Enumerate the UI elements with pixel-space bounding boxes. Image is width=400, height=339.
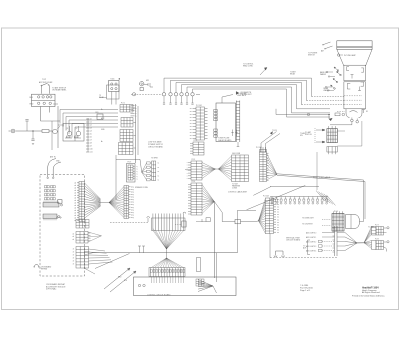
svg-text:CIRCUIT BOARD: CIRCUIT BOARD bbox=[286, 239, 301, 242]
svg-text:x0: x0 bbox=[90, 119, 92, 121]
svg-text:P/J 102: P/J 102 bbox=[196, 105, 202, 107]
svg-text:wxy: wxy bbox=[131, 199, 134, 201]
svg-text:nc: nc bbox=[158, 180, 160, 182]
svg-text:S1: S1 bbox=[366, 111, 368, 113]
svg-text:x11: x11 bbox=[90, 152, 93, 154]
svg-text:wxy: wxy bbox=[131, 217, 134, 219]
svg-text:P/J 4: P/J 4 bbox=[192, 181, 196, 183]
svg-text:ab: ab bbox=[74, 190, 76, 192]
svg-text:WAFER: WAFER bbox=[320, 73, 327, 76]
svg-text:x3: x3 bbox=[90, 128, 92, 130]
svg-text:nc: nc bbox=[158, 171, 160, 173]
svg-text:ab: ab bbox=[74, 212, 76, 214]
svg-text:CONN: CONN bbox=[232, 188, 238, 190]
svg-text:Q2: Q2 bbox=[75, 128, 77, 130]
svg-text:ab: ab bbox=[74, 187, 76, 189]
svg-text:wxy: wxy bbox=[131, 204, 134, 206]
svg-text:P/J 2: P/J 2 bbox=[194, 140, 198, 142]
svg-text:PHONE UNIT: PHONE UNIT bbox=[241, 94, 253, 96]
svg-text:ab: ab bbox=[74, 217, 76, 219]
svg-text:ON REAR PANEL: ON REAR PANEL bbox=[52, 89, 66, 92]
svg-text:P/J 7: P/J 7 bbox=[375, 224, 379, 226]
svg-text:P/J 1: P/J 1 bbox=[121, 103, 125, 105]
svg-text:nc: nc bbox=[158, 163, 160, 165]
svg-text:ab: ab bbox=[74, 185, 76, 187]
svg-text:P/J 8: P/J 8 bbox=[375, 238, 379, 240]
svg-text:Printed in the United States o: Printed in the United States of America bbox=[352, 294, 385, 297]
svg-text:wxy: wxy bbox=[131, 187, 134, 189]
svg-text:wxy: wxy bbox=[131, 197, 134, 199]
svg-text:x8: x8 bbox=[90, 143, 92, 145]
svg-text:ab: ab bbox=[74, 215, 76, 217]
svg-text:xw: xw bbox=[190, 120, 192, 122]
svg-text:P/J 5: P/J 5 bbox=[334, 211, 338, 213]
svg-text:K101: K101 bbox=[111, 79, 115, 81]
svg-text:wxy: wxy bbox=[131, 192, 134, 194]
svg-text:x2: x2 bbox=[90, 125, 92, 127]
svg-text:P/J 104: P/J 104 bbox=[256, 147, 262, 149]
svg-text:x6: x6 bbox=[90, 137, 92, 139]
svg-text:P/J 103: P/J 103 bbox=[263, 196, 269, 198]
svg-text:TO SPKR: TO SPKR bbox=[151, 158, 158, 160]
svg-text:TOP: TOP bbox=[42, 79, 47, 81]
svg-text:xw: xw bbox=[190, 123, 192, 125]
svg-text:xw: xw bbox=[190, 135, 192, 137]
svg-text:xw: xw bbox=[190, 111, 192, 113]
svg-text:xw: xw bbox=[190, 138, 192, 140]
svg-text:x5: x5 bbox=[90, 134, 92, 136]
svg-text:SWITCH: SWITCH bbox=[308, 55, 315, 57]
svg-text:ab: ab bbox=[74, 207, 76, 209]
svg-text:wxy: wxy bbox=[131, 207, 134, 209]
svg-text:ANT IN: ANT IN bbox=[50, 156, 56, 159]
svg-text:nc: nc bbox=[158, 167, 160, 169]
svg-text:CONTROL CABLE ASSY: CONTROL CABLE ASSY bbox=[228, 190, 248, 193]
svg-text:CIRCUIT BOARD: CIRCUIT BOARD bbox=[148, 145, 164, 148]
svg-text:ab: ab bbox=[74, 182, 76, 184]
svg-text:SWITCH: SWITCH bbox=[305, 134, 312, 136]
svg-text:© 4-1984: © 4-1984 bbox=[300, 284, 309, 287]
svg-text:wxy: wxy bbox=[131, 202, 134, 204]
svg-text:ab: ab bbox=[74, 200, 76, 202]
svg-text:xw: xw bbox=[190, 132, 192, 134]
svg-text:TO COURTESY: TO COURTESY bbox=[302, 224, 313, 226]
svg-text:ab: ab bbox=[74, 210, 76, 212]
svg-text:x4: x4 bbox=[90, 131, 92, 133]
svg-text:ab: ab bbox=[74, 192, 76, 194]
svg-text:ab: ab bbox=[74, 205, 76, 207]
svg-text:P/J 3: P/J 3 bbox=[192, 159, 196, 161]
svg-text:wxy: wxy bbox=[131, 189, 134, 191]
svg-text:xw: xw bbox=[190, 117, 192, 119]
svg-text:wxy: wxy bbox=[131, 212, 134, 214]
svg-text:Q1: Q1 bbox=[66, 128, 68, 130]
svg-text:x10: x10 bbox=[90, 149, 93, 151]
svg-text:xw: xw bbox=[190, 129, 192, 131]
svg-text:IN TUNE LAMP: IN TUNE LAMP bbox=[344, 54, 357, 57]
svg-text:ab: ab bbox=[74, 202, 76, 204]
svg-text:CONTROL CIRCUIT BOARD: CONTROL CIRCUIT BOARD bbox=[147, 293, 171, 296]
svg-text:(OPTIONAL): (OPTIONAL) bbox=[46, 288, 57, 291]
svg-text:x9: x9 bbox=[90, 146, 92, 148]
svg-text:xw: xw bbox=[190, 108, 192, 110]
svg-text:CB1: CB1 bbox=[95, 112, 99, 114]
svg-text:ab: ab bbox=[74, 197, 76, 199]
svg-text:xw: xw bbox=[190, 126, 192, 128]
svg-text:DIALER BOARD: DIALER BOARD bbox=[218, 139, 232, 142]
svg-text:REMOTE ANT CABLE: REMOTE ANT CABLE bbox=[313, 176, 331, 179]
svg-text:wxy: wxy bbox=[131, 209, 134, 211]
svg-text:WAFER: WAFER bbox=[323, 89, 330, 92]
svg-text:B+: B+ bbox=[101, 109, 103, 111]
svg-text:cd: cd bbox=[72, 239, 74, 241]
svg-text:All Rights Reserved: All Rights Reserved bbox=[362, 291, 380, 294]
svg-text:P/J 9: P/J 9 bbox=[128, 162, 132, 164]
svg-text:cd: cd bbox=[72, 236, 74, 238]
svg-text:Page 1 of 1: Page 1 of 1 bbox=[300, 290, 311, 292]
svg-text:wxy: wxy bbox=[131, 194, 134, 196]
svg-text:ab: ab bbox=[74, 195, 76, 197]
svg-text:TO DOME LIGHT: TO DOME LIGHT bbox=[302, 218, 314, 220]
svg-text:GM CONN: GM CONN bbox=[232, 153, 241, 155]
svg-text:cd: cd bbox=[72, 234, 74, 236]
svg-text:x7: x7 bbox=[90, 140, 92, 142]
svg-text:TO ANT: TO ANT bbox=[368, 226, 374, 229]
svg-text:TO CONTROL: TO CONTROL bbox=[243, 64, 254, 66]
svg-text:wxy: wxy bbox=[131, 214, 134, 216]
svg-text:xw: xw bbox=[190, 114, 192, 116]
svg-text:Part 595-3156: Part 595-3156 bbox=[300, 287, 314, 290]
svg-text:nc: nc bbox=[158, 175, 160, 177]
